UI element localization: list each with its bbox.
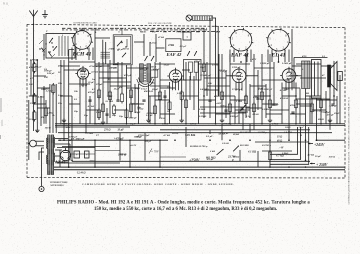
svg-text:0.1μ: 0.1μ bbox=[177, 92, 182, 95]
wire v70 bbox=[164, 90, 166, 124]
svg-text:ANTIFADING: ANTIFADING bbox=[50, 184, 64, 187]
wire v67 bbox=[89, 96, 91, 124]
osc section extra marks bbox=[39, 40, 43, 44]
rectifier AZ41 bbox=[60, 150, 70, 160]
junction dot lamp-border bbox=[215, 25, 217, 27]
wire v6 bbox=[68, 50, 70, 168]
svg-text:861 MΩ: 861 MΩ bbox=[206, 157, 216, 160]
svg-text:MED: MED bbox=[140, 31, 146, 34]
ground g3 bbox=[102, 120, 104, 122]
svg-text:39μ: 39μ bbox=[57, 82, 63, 85]
wire v18 bbox=[126, 65, 128, 124]
wire rightcol h2 bbox=[326, 99, 337, 101]
wire v61 bbox=[234, 96, 236, 124]
wire v34 bbox=[238, 83, 240, 124]
svg-text:470 μF: 470 μF bbox=[87, 91, 96, 94]
svg-text:68 kΩ: 68 kΩ bbox=[233, 133, 239, 136]
IF transformer T2 box bbox=[184, 60, 202, 81]
wire midtop h3 bbox=[156, 47, 165, 49]
label +250V right bbox=[310, 163, 315, 165]
speaker magnet bbox=[338, 72, 343, 81]
svg-text:1700 pF: 1700 pF bbox=[69, 136, 78, 139]
resistor R21 bbox=[228, 104, 231, 112]
wire bv10 bbox=[269, 124, 271, 167]
ground g4 bbox=[148, 118, 150, 120]
output transformer T3 winding bbox=[302, 61, 311, 89]
svg-text:1MΩ: 1MΩ bbox=[30, 102, 35, 105]
svg-text:60 Ω: 60 Ω bbox=[277, 140, 282, 143]
potentiometer P1 bbox=[240, 105, 245, 111]
wire v54 bbox=[218, 54, 220, 96]
svg-text:39μ: 39μ bbox=[111, 114, 117, 117]
wire v29 bbox=[203, 29, 205, 119]
svg-text:8Ω: 8Ω bbox=[306, 92, 309, 95]
svg-text:3300 pF: 3300 pF bbox=[229, 115, 239, 118]
wire v74 bbox=[45, 100, 47, 124]
wire v22 bbox=[143, 34, 145, 56]
wire bv4 bbox=[144, 133, 146, 161]
resistor R27 bbox=[310, 104, 313, 112]
trimmer C6 bbox=[122, 53, 126, 57]
wire v46 bbox=[320, 98, 322, 124]
svg-text:CONNESSIONE RADIO: CONNESSIONE RADIO bbox=[73, 21, 97, 24]
switch contact label row bbox=[62, 27, 65, 29]
wire midtop v2 bbox=[149, 42, 151, 56]
svg-text:2.8 MΩ: 2.8 MΩ bbox=[283, 131, 292, 134]
svg-text:0.1 MΩ: 0.1 MΩ bbox=[147, 112, 155, 115]
potentiometer P2 bbox=[217, 149, 224, 155]
wire v7 bbox=[71, 96, 73, 161]
svg-text:+ 70V: + 70V bbox=[151, 150, 160, 154]
wire v48 bbox=[339, 75, 341, 124]
switch legend box bbox=[166, 39, 181, 52]
scan edge marks bbox=[0, 98, 2, 112]
svg-text:+245V: +245V bbox=[314, 143, 325, 147]
wire ech41 top stub bbox=[81, 28, 83, 31]
wire v28 bbox=[198, 62, 200, 124]
svg-text:330: 330 bbox=[43, 76, 49, 79]
svg-text:+ 250V: + 250V bbox=[316, 163, 328, 167]
speaker top wires bbox=[294, 57, 328, 59]
svg-text:2.2 kΩ: 2.2 kΩ bbox=[46, 112, 54, 115]
capacitor Ce bbox=[163, 95, 166, 97]
resistor R2 bbox=[52, 85, 55, 93]
ground g1 bbox=[36, 128, 38, 130]
resistor R11 bbox=[129, 90, 132, 98]
svg-text:AUTORIZZAZIONE MINISTERO POST.: AUTORIZZAZIONE MINISTERO POST. TELECOM. … bbox=[348, 96, 351, 205]
wire v13 bbox=[94, 29, 96, 124]
mains plug bbox=[30, 140, 37, 147]
wire v59 bbox=[265, 84, 267, 118]
svg-text:2 MΩ: 2 MΩ bbox=[110, 67, 117, 70]
svg-text:- 4V: - 4V bbox=[279, 147, 284, 150]
wire bv1 bbox=[94, 140, 96, 167]
wire bv2 bbox=[119, 133, 121, 161]
capacitor Ck bbox=[291, 111, 294, 113]
svg-text:39 μF: 39 μF bbox=[87, 81, 94, 84]
wire v51 bbox=[333, 61, 335, 104]
svg-text:150 kc, medie a 550 kc, corte: 150 kc, medie a 550 kc, corte a 16,7 ed … bbox=[94, 207, 277, 212]
wire midtop v1 bbox=[155, 34, 157, 62]
svg-text:47kΩ: 47kΩ bbox=[167, 44, 174, 47]
wire v62 bbox=[242, 112, 244, 130]
svg-text:861MΩ 23.700 μ: 861MΩ 23.700 μ bbox=[190, 145, 208, 148]
svg-text:25 μF: 25 μF bbox=[257, 87, 264, 90]
capacitor Cl bbox=[331, 103, 334, 105]
tube socket EL41 bbox=[268, 29, 290, 51]
resistor R22 bbox=[244, 96, 247, 104]
wire v66 bbox=[121, 62, 123, 94]
wire v65 bbox=[117, 62, 119, 100]
svg-text:25 μF: 25 μF bbox=[113, 88, 120, 91]
svg-text:23 700 μ: 23 700 μ bbox=[257, 131, 268, 134]
wire chassis corner 1 bbox=[270, 127, 298, 154]
svg-text:4.7 kΩ: 4.7 kΩ bbox=[162, 134, 170, 137]
resistor R14 bbox=[97, 110, 100, 118]
capacitor Cb bbox=[105, 113, 108, 115]
wire v63 bbox=[189, 76, 191, 100]
wire HT bus 1b bbox=[55, 125, 345, 127]
svg-text:861 MΩ: 861 MΩ bbox=[240, 131, 249, 134]
wire v41 bbox=[288, 83, 290, 141]
wire v11 bbox=[79, 79, 81, 124]
wire heater bus lower bbox=[54, 169, 345, 171]
svg-text:2 kΩ: 2 kΩ bbox=[209, 150, 215, 153]
power switch bbox=[39, 186, 44, 191]
wire dashed enclosure top bbox=[27, 24, 345, 27]
capacitor Ci bbox=[256, 97, 259, 99]
wire HT bus 2 bbox=[55, 126, 130, 128]
wire v36 bbox=[253, 54, 255, 130]
capacitor Cf bbox=[208, 99, 211, 101]
svg-text:2.2 kΩ: 2.2 kΩ bbox=[149, 41, 157, 44]
wire dashed enclosure right bbox=[344, 28, 346, 178]
wire v25 bbox=[169, 82, 171, 124]
wire v60 bbox=[273, 62, 275, 104]
svg-text:330 Ω: 330 Ω bbox=[328, 156, 335, 159]
svg-text:330 Ω: 330 Ω bbox=[158, 117, 165, 120]
wire midtop h1 bbox=[134, 41, 144, 43]
triode-hexode V1 bbox=[77, 68, 88, 79]
svg-text:2 MΩ: 2 MΩ bbox=[108, 48, 115, 51]
resistor R5 bbox=[44, 108, 47, 116]
svg-text:L.MΩ μF: L.MΩ μF bbox=[281, 62, 292, 65]
svg-text:100 pF: 100 pF bbox=[220, 70, 227, 73]
wire v2 bbox=[36, 60, 38, 128]
transformer taps bbox=[55, 138, 68, 140]
svg-text:Ω: Ω bbox=[300, 134, 302, 137]
wire v23 bbox=[154, 62, 156, 124]
wire v31 bbox=[215, 20, 217, 124]
capacitor Cc bbox=[116, 99, 119, 101]
wire antenna lead bbox=[33, 26, 35, 131]
wire bottom band h3 bbox=[70, 153, 95, 155]
wire v40 bbox=[281, 83, 283, 124]
speaker cone bbox=[328, 65, 331, 87]
svg-text:12.44 Ω: 12.44 Ω bbox=[77, 172, 85, 175]
wire v16 bbox=[109, 60, 111, 118]
node dots osc bbox=[45, 43, 46, 44]
wire v5 bbox=[63, 60, 65, 140]
wire socket leads EAF41 bbox=[229, 50, 231, 63]
wire v50 bbox=[291, 61, 293, 88]
wire bottom band h4 bbox=[160, 156, 186, 158]
wire screen bus bbox=[62, 146, 110, 148]
svg-text:39μ: 39μ bbox=[73, 110, 79, 113]
wire midtop h2 bbox=[95, 37, 110, 39]
wire dashed enclosure left bbox=[26, 24, 28, 177]
svg-text:+: + bbox=[86, 153, 88, 157]
svg-text:17.000 pF: 17.000 pF bbox=[232, 88, 243, 91]
trimmer C3 bbox=[48, 52, 51, 57]
wire bv5 bbox=[159, 140, 161, 167]
wire det row h1 bbox=[200, 106, 250, 108]
svg-text:4.7 kΩ: 4.7 kΩ bbox=[90, 71, 98, 74]
wire heater bus upper bbox=[54, 166, 345, 168]
wire bus top rail bbox=[62, 32, 205, 34]
ground g8 bbox=[329, 118, 331, 120]
svg-text:AZ 41: AZ 41 bbox=[54, 160, 66, 165]
svg-text:0.5 μF: 0.5 μF bbox=[324, 111, 331, 114]
wire v49 bbox=[291, 29, 293, 61]
svg-text:4.7 kΩ: 4.7 kΩ bbox=[87, 105, 95, 108]
wire v20 bbox=[138, 84, 140, 124]
wire leftcol h3 bbox=[37, 107, 50, 109]
wire v10 bbox=[55, 84, 57, 133]
wire bottom band h6 bbox=[262, 150, 292, 152]
wire v47 bbox=[329, 87, 331, 130]
trimmer C10 bbox=[194, 51, 197, 56]
resistor R30 bbox=[268, 152, 271, 160]
switch contact label row 2 bbox=[150, 30, 154, 32]
resistor R16 bbox=[153, 106, 156, 114]
wire v44 bbox=[311, 98, 313, 124]
svg-text:470μF: 470μF bbox=[193, 60, 201, 63]
svg-text:529 KΩ: 529 KΩ bbox=[185, 133, 196, 137]
wire lamp drop bbox=[209, 18, 211, 20]
svg-text:4.7 kΩ: 4.7 kΩ bbox=[37, 96, 45, 99]
resistor R29 bbox=[184, 100, 187, 108]
ground g6 bbox=[221, 118, 223, 120]
power transformer secondary bbox=[54, 137, 55, 148]
svg-text:3300 pF: 3300 pF bbox=[128, 117, 138, 120]
wire mid rail bbox=[160, 129, 310, 131]
wire v33 bbox=[229, 54, 231, 124]
svg-text:2.2 kΩ: 2.2 kΩ bbox=[221, 142, 229, 145]
wire v52 bbox=[325, 91, 327, 124]
wire v43 bbox=[305, 89, 307, 161]
wire v14 bbox=[98, 62, 100, 120]
svg-text:0.1 MΩ: 0.1 MΩ bbox=[106, 100, 114, 103]
filter capacitor C6 bbox=[85, 151, 90, 158]
svg-text:470 μF: 470 μF bbox=[34, 65, 43, 68]
wire stub rows bbox=[69, 61, 95, 63]
wire bottom band h5 bbox=[57, 162, 120, 164]
svg-text:370μF: 370μF bbox=[95, 83, 103, 86]
tube socket ECH41 bbox=[73, 31, 92, 50]
svg-text:0.5M: 0.5M bbox=[253, 96, 259, 99]
wire rightcol h1 bbox=[300, 105, 312, 107]
tube socket EAF41 bbox=[230, 29, 252, 51]
svg-text:4.7 kΩ: 4.7 kΩ bbox=[279, 89, 287, 92]
trimmer C7 bbox=[145, 56, 148, 61]
resistor R24 bbox=[260, 92, 263, 100]
svg-text:4 100 Ω: 4 100 Ω bbox=[279, 97, 288, 100]
wire B+ bus bbox=[58, 139, 168, 141]
svg-text:POS. CICALE GRANDE: POS. CICALE GRANDE bbox=[148, 22, 172, 25]
wire v4 bbox=[60, 60, 62, 124]
svg-text:2n: 2n bbox=[107, 78, 111, 81]
wire rightcol v1 bbox=[336, 96, 338, 124]
power transformer primary bbox=[46, 138, 47, 149]
ground g5 bbox=[181, 118, 183, 120]
svg-text:CAMBIATORE ONDE E A TASTI GRAN: CAMBIATORE ONDE E A TASTI GRANDE: ONDE C… bbox=[82, 183, 234, 186]
capacitor Ca bbox=[88, 99, 91, 101]
wire v69 bbox=[134, 84, 136, 113]
coil box inner windings bbox=[58, 36, 60, 56]
svg-text:270 Ω: 270 Ω bbox=[103, 129, 111, 132]
filter capacitor C5 bbox=[74, 151, 80, 158]
wire dashed enclosure bottom bbox=[27, 176, 345, 179]
svg-text:1700 pF: 1700 pF bbox=[232, 66, 241, 69]
IF T1 coupling arcs bbox=[137, 79, 154, 87]
value labels 2 bbox=[28, 28, 340, 153]
output transformer T3 core bbox=[312, 60, 322, 99]
ground g2 bbox=[63, 118, 65, 120]
svg-text:17.04Ω μF: 17.04Ω μF bbox=[200, 74, 212, 77]
svg-text:68 kΩ: 68 kΩ bbox=[137, 107, 143, 110]
detector V3 bbox=[232, 69, 246, 83]
wire v45 bbox=[316, 98, 318, 140]
svg-text:25μ: 25μ bbox=[83, 114, 89, 117]
svg-text:68 kΩ: 68 kΩ bbox=[253, 113, 259, 116]
trimmer C1 bbox=[49, 38, 53, 43]
output pentode V4 bbox=[282, 69, 296, 83]
coil box L2 bbox=[46, 34, 75, 59]
svg-text:+6.3V: +6.3V bbox=[130, 144, 137, 147]
svg-text:39 μF: 39 μF bbox=[151, 88, 159, 91]
wire v35 bbox=[245, 54, 247, 118]
resistor R9 bbox=[112, 106, 115, 114]
svg-text:EAF 42: EAF 42 bbox=[166, 52, 183, 57]
capacitor Cj bbox=[272, 103, 275, 105]
resistor R3 bbox=[33, 95, 36, 103]
bottom dots bbox=[94, 139, 96, 141]
wire v8 bbox=[49, 84, 51, 133]
svg-text:68kΩ: 68kΩ bbox=[285, 126, 291, 129]
svg-text:330 Ω: 330 Ω bbox=[149, 66, 156, 69]
wire v68 bbox=[106, 108, 108, 124]
svg-text:560 Ω: 560 Ω bbox=[45, 127, 51, 130]
svg-text:17000 pF: 17000 pF bbox=[260, 62, 270, 65]
wire v71 bbox=[149, 96, 151, 124]
IF pentode V2 bbox=[169, 70, 181, 82]
wire v32 bbox=[221, 54, 223, 118]
wire bv8 bbox=[249, 124, 251, 133]
wire mains switch loop bbox=[42, 148, 45, 187]
wire chassis corner 3 bbox=[270, 127, 309, 164]
wire bv3 bbox=[129, 140, 131, 167]
wire bv7 bbox=[239, 150, 241, 161]
resistor R19 bbox=[202, 64, 205, 72]
wire bv9 bbox=[257, 151, 259, 167]
wire bv12 bbox=[221, 124, 223, 140]
svg-text:39μ: 39μ bbox=[65, 126, 71, 129]
svg-text:4.1 KΩ: 4.1 KΩ bbox=[247, 151, 257, 154]
wire shield partition bbox=[217, 26, 219, 96]
wire chassis corner 2 bbox=[270, 127, 301, 160]
svg-text:100 pF: 100 pF bbox=[272, 104, 279, 107]
svg-text:1 MΩ: 1 MΩ bbox=[236, 100, 242, 103]
wire v57 bbox=[249, 84, 251, 118]
svg-text:68kΩ: 68kΩ bbox=[318, 118, 324, 121]
wire B+ bus right bbox=[255, 141, 309, 143]
trimmer C8 bbox=[151, 56, 154, 61]
wire bv6 bbox=[185, 127, 187, 147]
antenna bbox=[33, 17, 35, 27]
potentiometer P3 bbox=[233, 146, 239, 152]
svg-text:2.2kΩ: 2.2kΩ bbox=[198, 108, 205, 111]
svg-text:22 kΩ: 22 kΩ bbox=[42, 88, 49, 91]
junction dots bbox=[94, 123, 96, 125]
IF T1 core bbox=[143, 65, 145, 84]
resistor R20 bbox=[220, 92, 223, 100]
wire v26 bbox=[181, 76, 183, 118]
svg-text:EL 41: EL 41 bbox=[271, 52, 286, 58]
wire v12 bbox=[85, 79, 87, 133]
svg-text:560 Ω: 560 Ω bbox=[123, 47, 129, 50]
svg-text:100 pF: 100 pF bbox=[144, 140, 151, 143]
svg-text:0.02 μF: 0.02 μF bbox=[47, 72, 55, 75]
svg-text:0.1: 0.1 bbox=[74, 98, 77, 101]
wire det row h2 bbox=[200, 112, 246, 114]
svg-text:15 Ω: 15 Ω bbox=[277, 136, 282, 139]
svg-text:47 kΩ: 47 kΩ bbox=[157, 36, 164, 39]
svg-text:1 MΩ: 1 MΩ bbox=[149, 82, 155, 85]
ground symbol at antenna bbox=[44, 10, 46, 15]
resistor R26 bbox=[294, 100, 297, 108]
label +245V bbox=[308, 143, 313, 145]
svg-text:470μF: 470μF bbox=[95, 65, 103, 68]
wire v72 bbox=[43, 34, 45, 60]
svg-text:+250V: +250V bbox=[189, 159, 200, 163]
svg-text:47 kΩ: 47 kΩ bbox=[88, 160, 95, 163]
wire v19 bbox=[130, 65, 132, 118]
wire leftcol h2 bbox=[34, 75, 47, 77]
wire v15 bbox=[102, 62, 104, 120]
svg-text:4μ: 4μ bbox=[35, 130, 39, 133]
wire v30 bbox=[209, 20, 211, 118]
component value labels bbox=[29, 55, 325, 155]
resistor R10 bbox=[120, 94, 123, 102]
ground g7 bbox=[269, 118, 271, 120]
trimmer C5 bbox=[117, 41, 122, 47]
wire bottom band h1 bbox=[57, 147, 95, 149]
svg-text:861 MΩ: 861 MΩ bbox=[240, 144, 249, 147]
lamp sub box bbox=[183, 32, 191, 40]
wire v42 bbox=[295, 83, 297, 124]
wire v9 bbox=[52, 84, 54, 133]
svg-text:+: + bbox=[76, 153, 78, 157]
capacitor Cd bbox=[142, 99, 145, 101]
IF transformer T1 primary bbox=[140, 64, 144, 82]
svg-text:50μ: 50μ bbox=[119, 115, 124, 118]
svg-text:2 MΩ: 2 MΩ bbox=[86, 132, 93, 135]
resistor R28 bbox=[319, 100, 322, 108]
wire v37 bbox=[261, 54, 263, 124]
junction dot antenna-border bbox=[33, 24, 35, 26]
svg-text:470 μF: 470 μF bbox=[123, 74, 132, 77]
